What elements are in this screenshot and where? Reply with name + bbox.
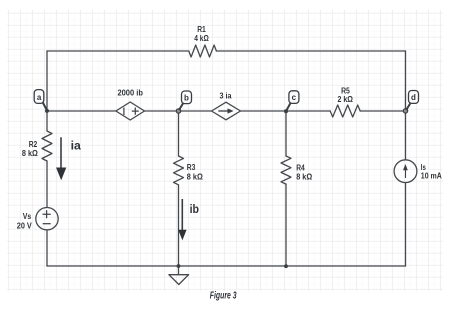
node label d callout xyxy=(406,91,418,111)
node dot c xyxy=(284,109,288,113)
wire bottom rail xyxy=(47,265,406,267)
dependent source 2000ib diamond xyxy=(116,102,145,120)
wire left rail top to node a xyxy=(46,51,48,131)
wire source1 to node b to source2 xyxy=(145,110,212,112)
plus sign inside Vs xyxy=(43,108,139,224)
svg-text:b: b xyxy=(184,93,189,102)
svg-text:20 V: 20 V xyxy=(17,220,32,230)
resistor R5 xyxy=(330,105,360,117)
svg-text:4 kΩ: 4 kΩ xyxy=(194,33,209,43)
node dot b xyxy=(176,109,180,113)
svg-text:10 mA: 10 mA xyxy=(421,171,442,181)
junction dot bottom b xyxy=(177,264,181,268)
node label a callout xyxy=(34,90,46,110)
wire top rail right of R1 xyxy=(216,50,405,52)
wire R3 to bottom rail xyxy=(178,185,180,266)
plus sign inside source1 xyxy=(132,108,139,115)
svg-text:a: a xyxy=(37,93,42,102)
svg-text:c: c xyxy=(292,93,297,102)
node dot a xyxy=(45,109,49,113)
wire node b down to R3 xyxy=(178,111,180,156)
svg-text:8 kΩ: 8 kΩ xyxy=(187,172,203,182)
svg-text:ia: ia xyxy=(71,138,81,152)
wire R5 to node d xyxy=(360,110,405,112)
svg-text:2000 ib: 2000 ib xyxy=(117,87,143,97)
junction dot bottom c xyxy=(284,264,288,268)
wire top rail down to node d xyxy=(405,51,407,111)
current arrow ia xyxy=(56,137,66,180)
arrow inside Is source xyxy=(403,164,408,178)
node dot d xyxy=(403,109,407,113)
minus bar inside source1 xyxy=(123,108,125,116)
wire node c down to R4 xyxy=(285,111,287,156)
dependent source 3ia diamond xyxy=(212,102,241,120)
arrow inside 3ia source xyxy=(218,108,233,113)
wire mid rail a to source1 xyxy=(47,110,116,112)
wire node d down to Is xyxy=(405,111,407,160)
svg-text:Figure 3: Figure 3 xyxy=(210,290,237,301)
ground stub xyxy=(178,266,180,275)
wire top rail left of R1 xyxy=(47,50,189,52)
ground triangle xyxy=(169,275,189,285)
minus sign inside Vs xyxy=(43,223,51,225)
svg-text:2 kΩ: 2 kΩ xyxy=(337,94,353,104)
wire Vs to bottom rail xyxy=(46,230,48,266)
wire R4 to bottom rail xyxy=(285,184,287,266)
svg-text:d: d xyxy=(411,93,416,102)
source Vs circle xyxy=(36,208,58,230)
svg-text:8 kΩ: 8 kΩ xyxy=(22,148,38,158)
source Is circle xyxy=(394,160,417,183)
resistor R4 xyxy=(281,156,291,184)
wire Is to bottom rail xyxy=(405,183,407,267)
svg-text:3 ia: 3 ia xyxy=(220,91,232,101)
resistor R2 xyxy=(42,131,52,161)
resistor R1 xyxy=(189,45,217,57)
wire source2 to node c to R5 xyxy=(241,110,331,112)
resistor R3 xyxy=(174,156,184,185)
node label c callout xyxy=(287,91,299,111)
wire node R2 to Vs xyxy=(46,161,48,207)
current arrow ib xyxy=(178,199,186,240)
svg-text:8 kΩ: 8 kΩ xyxy=(296,171,312,181)
node label b callout xyxy=(179,91,192,110)
svg-text:ib: ib xyxy=(190,202,200,216)
